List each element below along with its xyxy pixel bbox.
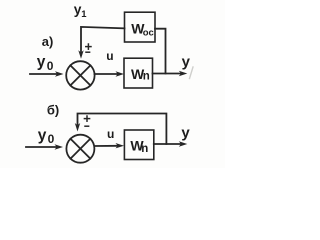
wire summing junction to Wn (bottom): [95, 145, 118, 147]
svg-text:y: y: [182, 53, 191, 70]
plus sign (top): [86, 46, 91, 48]
svg-text:n: n: [141, 143, 148, 155]
svg-text:ос: ос: [143, 28, 154, 39]
summing junction (bottom): [66, 135, 94, 163]
svg-text:y: y: [37, 53, 46, 70]
wire feedback tap (top): [155, 29, 166, 74]
block Wn (bottom): [124, 130, 153, 160]
svg-text:y: y: [38, 127, 47, 144]
wire feedback loop (bottom): [78, 114, 167, 145]
scan smudge artifact: [190, 67, 194, 79]
wire input y0 (top): [30, 73, 58, 75]
wire input y0 (bottom): [26, 146, 57, 148]
block Woc: [125, 12, 156, 42]
svg-text:б): б): [47, 102, 59, 117]
svg-text:1: 1: [81, 9, 87, 20]
plus sign (bottom): [84, 118, 89, 120]
svg-text:u: u: [107, 127, 114, 141]
svg-text:0: 0: [48, 132, 55, 146]
svg-text:0: 0: [47, 59, 54, 73]
svg-text:y: y: [181, 124, 190, 141]
svg-text:u: u: [106, 49, 113, 63]
wire summing junction to Wn (top): [95, 73, 118, 75]
wire output y (bottom): [154, 143, 181, 145]
svg-text:а): а): [42, 34, 54, 49]
block Wn (top): [124, 58, 153, 88]
minus sign (top): [86, 51, 90, 53]
minus sign (bottom): [85, 125, 89, 127]
svg-text:n: n: [143, 71, 150, 83]
wire feedback from Woc to summing junction (top): [81, 27, 125, 52]
wire output y (top): [153, 73, 181, 75]
summing junction (top): [66, 61, 94, 89]
